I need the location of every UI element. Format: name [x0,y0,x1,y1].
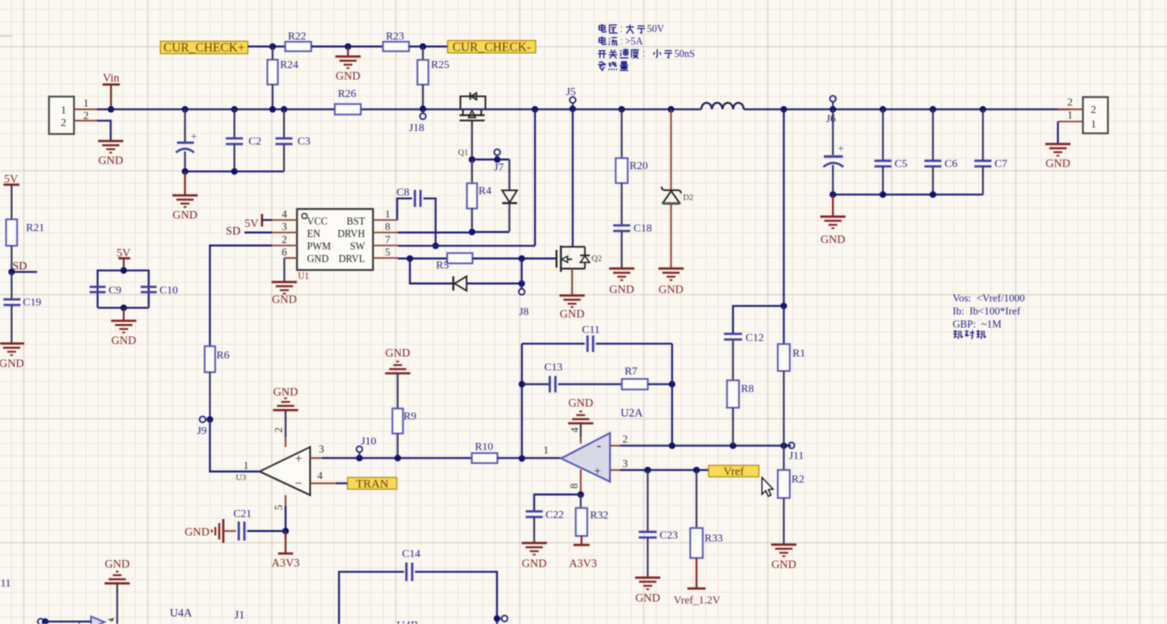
wire C9/C10 top rail [98,270,149,307]
connector P2 (output) [1083,97,1108,133]
ground GND under D2 [658,269,683,297]
pin 2 of P1 [74,110,98,122]
svg-text:8: 8 [385,222,390,233]
capacitor C23 [639,470,679,577]
svg-text:CUR_CHECK-: CUR_CHECK- [452,40,530,54]
svg-text:R24: R24 [280,59,299,71]
pin 6 GND of U1 [282,248,297,259]
wire R10 to U2A output [497,457,561,459]
node U2A supply junction [577,491,584,498]
designator U4B [397,620,419,624]
svg-text:J18: J18 [409,122,425,134]
svg-text:1: 1 [1091,119,1097,131]
testpoint J? at U4A input [38,618,91,624]
capacitor C3 [276,109,311,171]
svg-text:R25: R25 [431,59,450,71]
wire to C22 [534,495,581,512]
resistor R9 [392,409,416,459]
svg-text:3: 3 [319,445,324,456]
svg-text:4: 4 [317,471,323,482]
node C23 tap [644,467,651,474]
testpoint J5 [566,86,576,109]
node C2 tap [231,106,238,113]
pin 4 of U2A (V+) [570,427,581,444]
svg-text:C23: C23 [660,530,679,542]
svg-text:R6: R6 [217,350,230,362]
resistor R26 (in bus) [335,88,361,115]
ground GND under C23 [635,578,660,605]
svg-text:C19: C19 [23,297,42,309]
node R5 right junction [518,255,525,262]
wire U2A pin3 net [620,469,709,471]
svg-text:5: 5 [385,248,390,259]
svg-text:GND: GND [560,309,585,321]
resistor R6 [205,346,230,419]
net label SD (left) [12,260,37,272]
testpoint J6 [826,96,836,125]
capacitor C8 (bootstrap) [397,187,436,246]
svg-text:2: 2 [83,110,89,122]
svg-text:GND: GND [0,358,24,370]
ground GND above U4A (inverted) [105,559,130,624]
svg-text:R1: R1 [793,348,806,360]
capacitor C14 loop [339,548,497,624]
svg-text:2: 2 [1067,97,1073,109]
pin 5 DRVL of U1 [373,248,398,259]
svg-text:GND: GND [111,335,136,347]
testpoint J7 [494,149,504,173]
svg-text:+: + [295,451,302,466]
node SW riser junction [532,106,539,113]
svg-text:R22: R22 [288,31,306,43]
svg-text:GND: GND [568,398,593,410]
svg-text:GND: GND [185,527,210,539]
ground GND under Q2 [560,296,585,321]
pin 3 EN of U1 [272,222,297,233]
svg-text:CUR_CHECK+: CUR_CHECK+ [163,41,244,55]
node cap rail to ground [120,305,127,312]
testpoint at U4B [497,616,508,622]
net label Vref [709,465,759,478]
svg-text:GND: GND [385,348,410,360]
svg-text:5: 5 [274,505,285,510]
zener diode D2 [662,106,694,269]
svg-text:GND: GND [272,294,297,306]
svg-text:SW: SW [350,242,366,253]
pin 2 of P2 [1058,97,1083,110]
node GND tap after R22 [345,43,352,50]
pin 8 DRVH of U1 [373,222,398,233]
capacitor C19 [4,272,42,344]
resistor R8 [727,380,754,445]
node J6 tap [830,106,837,113]
resistor R23 [383,31,409,52]
capacitor C6 [924,109,957,194]
svg-text:J10: J10 [361,436,377,448]
node feedback riser tap [781,106,788,113]
svg-text:GND: GND [820,234,845,246]
net label SD at U1 EN [226,226,272,238]
capacitor C22 [526,509,564,543]
pin 3 of U2A (+) [610,459,628,470]
op-amp/controller U1 body [297,209,373,281]
svg-text:1: 1 [243,461,248,472]
wire feedback right riser [671,344,673,446]
port arrow at U4A input (cut off) [91,617,105,624]
capacitor C4 electrolytic [823,109,844,194]
svg-text:R26: R26 [338,88,357,100]
svg-text:3: 3 [282,222,287,233]
svg-text:2: 2 [61,117,67,129]
svg-text:D2: D2 [683,192,693,202]
svg-text:R2: R2 [792,474,805,486]
op-amp U2A [543,408,643,482]
svg-text:U1: U1 [298,271,309,281]
svg-text:1: 1 [385,210,390,221]
node R24 bottom [269,106,276,113]
transistor Q1 with body diode [458,93,485,158]
svg-text:1: 1 [543,446,548,457]
wire U3 output riser [210,419,260,471]
node R4 bottom junction [469,229,476,236]
ground GND under U1 pin6 [272,258,297,306]
net label TRAN [348,476,397,490]
net label CUR_CHECK+ [160,41,247,55]
svg-text:C7: C7 [995,158,1008,170]
ground GND above U2A (inverted) [568,398,593,438]
svg-text:J6: J6 [826,113,836,125]
svg-text:Vref_1.2V: Vref_1.2V [674,595,721,607]
svg-text:Ib: Ib<100*Iref: Ib: Ib<100*Iref [953,307,1021,318]
node J18 junction [420,106,427,113]
svg-text:7: 7 [385,235,390,246]
pin 1 BST of U1 [373,210,397,221]
ground GND above U3 (inverted) [273,387,298,438]
testpoint J11 [789,442,804,462]
pin 4 VCC of U1 [272,210,297,221]
wire Q2 drain riser [572,109,574,246]
svg-text:U2A: U2A [621,408,644,420]
svg-text:6: 6 [282,248,287,259]
node C1 bottom [182,168,189,175]
wire feedback left riser [521,344,523,459]
resistor R2 [778,446,805,545]
svg-text:R20: R20 [630,160,649,172]
svg-text:J7: J7 [494,162,504,174]
svg-text:1: 1 [61,105,67,117]
wire R23 to CUR_CHECK- [409,46,448,48]
wire SW net [398,245,535,247]
wire output cap ground rail [833,194,983,196]
wire U2A pin2 net [620,445,791,447]
diode D (DRVL speedup) [453,276,521,290]
ground GND lying (left of C21) [185,519,224,543]
capacitor C12 [724,332,764,380]
svg-text:R4: R4 [479,185,492,197]
resistor R5 [436,253,473,271]
svg-text:+: + [594,464,601,478]
svg-text:EN: EN [307,229,320,240]
node at R25 top [420,43,427,50]
svg-text:DRVL: DRVL [339,254,365,265]
svg-text:U4B: U4B [397,620,419,624]
svg-text:C21: C21 [233,508,251,520]
svg-text:4: 4 [282,210,288,221]
node J9 junction [207,416,214,423]
svg-text:C22: C22 [546,509,564,521]
svg-text:Vin: Vin [103,73,120,85]
svg-text:GND: GND [336,71,361,83]
wire P2 pin1 to ground [1057,122,1059,146]
svg-text:1: 1 [1067,110,1073,122]
pin 3 of U3 (+) [310,445,330,459]
wire C12 branch top [733,306,784,334]
diode D (gate speedup, by J7) [502,160,517,232]
svg-text:GND: GND [98,155,123,167]
svg-text:A3V3: A3V3 [569,558,597,570]
wire bus inductor to output [744,108,1070,110]
svg-text:U3: U3 [236,472,246,482]
annotation: voltage/current/switching notes [598,24,695,71]
resistor R32 [576,495,609,546]
node R33 tap [693,467,700,474]
node SD junction [8,269,15,276]
node at R24 top [269,43,276,50]
capacitor C1 electrolytic [176,109,197,171]
ground GND under P2 [1045,144,1070,170]
wire DRVL bypass lower [410,259,453,284]
node feedback right mid [669,381,676,388]
sheet corner artifact [0,35,13,37]
svg-text:C9: C9 [109,285,122,297]
svg-text:GND: GND [307,254,329,265]
svg-text:5V: 5V [244,218,259,230]
capacitor C7 [974,109,1007,194]
svg-text:R11: R11 [0,578,11,590]
node feedback left mid [519,381,526,388]
node J5 junction [569,106,576,113]
wire U3 pin4 to TRAN [336,482,348,484]
node diode/J8 junction [518,280,525,287]
svg-text:50nS: 50nS [674,49,695,60]
pin marker at U4A (gray) [108,618,115,622]
node C5 tap [880,106,887,113]
svg-text:+: + [191,132,197,143]
svg-text:GND: GND [771,559,796,571]
resistor R24 [267,47,298,110]
node 5V cap rail [120,267,127,274]
inductor L1 [701,103,743,110]
node SW/C8 junction [432,243,439,250]
svg-text:GND: GND [635,593,660,605]
ground GND under C1 [172,171,197,221]
svg-text:C18: C18 [634,223,653,235]
node feedback divider top [781,303,788,310]
connector P1 (input) [49,97,74,134]
net label CUR_CHECK- [448,40,536,54]
resistor R20 [616,106,649,225]
svg-text:-: - [597,438,601,453]
wire U3 pin3 net [322,457,472,459]
ground GND under C9/C10 [111,308,136,347]
capacitor C18 [613,223,652,269]
resistor R7 [622,366,672,390]
pin 8 of U2A (V-) [570,470,581,495]
svg-text:2: 2 [274,427,285,432]
svg-text:BST: BST [347,217,365,228]
power port 5V (left rail) [4,174,20,220]
wire J8 riser [521,259,523,289]
svg-text:Vref: Vref [724,466,745,478]
wire output sense riser [783,109,785,344]
ground GND under C18 [609,269,634,297]
svg-text:GND: GND [609,284,634,296]
wire U3 pin5 to A3V3 node [285,506,287,531]
power port A3V3 under R32 [569,545,597,570]
svg-text:J9: J9 [197,425,207,437]
node pin2/C12 junction [730,442,737,449]
power port A3V3 under U3 [272,531,300,570]
svg-text:GND: GND [659,284,684,296]
ground GND between R22 and R23 [335,47,360,83]
node U3 bias junction [282,528,289,535]
power port Vin [103,73,120,110]
svg-text:R9: R9 [404,411,417,423]
node C3 tap [281,106,288,113]
wire Q1 gate down to R4 [471,125,473,160]
wire DRVL to R5 [398,258,447,260]
transistor Q2 [557,246,602,272]
node C4 bottom [830,191,837,198]
ground GND under P1 [98,141,123,167]
resistor R33 [690,470,723,588]
wire SW riser [534,109,536,246]
wire input cap ground rail [185,170,284,172]
wire Q2 source to ground [571,269,573,296]
svg-text:C8: C8 [397,187,410,199]
svg-text:U4A: U4A [170,608,193,620]
testpoint J8 [519,289,530,318]
resistor R4 [467,160,492,232]
wire R22 to R23 [311,46,383,48]
ground GND above R9 (inverted) [385,348,410,409]
node J7 junction [494,156,501,163]
svg-text:R8: R8 [741,383,754,395]
svg-text:−: − [295,476,302,491]
svg-text:J11: J11 [789,450,804,462]
node C2 bottom [231,168,238,175]
pin 4 of U3 (-) [310,471,336,483]
resistor R1 [778,344,806,446]
node pin2/feedback junction [669,442,676,449]
node Vin junction [108,106,115,113]
pin 1 of P2 [1058,110,1083,122]
svg-text:C12: C12 [746,332,764,344]
node R9 bottom junction [394,455,401,462]
capacitor C10 [141,285,179,297]
svg-text:50V: 50V [647,24,665,35]
designator U4A [170,608,193,620]
resistor R22 [285,31,311,52]
capacitor C21 [225,508,286,541]
pin 2 of U2A (-) [610,435,628,446]
svg-text:4: 4 [570,427,581,433]
svg-text:J8: J8 [519,306,529,318]
svg-text:C2: C2 [249,136,262,148]
svg-text:3: 3 [623,459,628,470]
svg-text:8: 8 [570,483,581,488]
wire gate node to J7 [472,159,509,161]
svg-text:DRVH: DRVH [337,229,365,240]
svg-text:>5A: >5A [625,37,644,48]
svg-text:1: 1 [83,98,89,110]
svg-text:R21: R21 [26,222,44,234]
ground GND under C22 [522,543,547,570]
svg-text:C11: C11 [582,324,600,336]
capacitor C11 [522,324,672,352]
resistor R21 [6,219,44,272]
power port 5V above C9/C10 [116,248,131,271]
annotation: op-amp requirements [953,294,1025,339]
svg-text:2: 2 [623,435,628,446]
pin 2 of U3 (V+) [274,427,286,447]
wire CUR_CHECK+ to R22 [248,46,285,48]
designator J1 [234,610,244,622]
node DRVL split [407,255,414,262]
svg-text:Q2: Q2 [592,253,602,263]
svg-text:C13: C13 [544,362,563,374]
testpoint J18 [409,109,426,134]
svg-text:C14: C14 [402,548,421,560]
svg-text:R23: R23 [386,31,405,43]
wire R5 to Q2 gate [473,258,557,260]
wire main input bus [111,108,701,110]
capacitor C13 [522,362,622,393]
svg-text:VCC: VCC [307,217,328,228]
svg-text:C5: C5 [895,158,908,170]
node C7 tap [980,106,987,113]
svg-text:R33: R33 [705,533,724,545]
resistor R25 [417,47,449,110]
node J11 junction [781,442,788,449]
power port 5V at U1 VCC [244,214,272,230]
pin 2 PWM of U1 [272,235,297,246]
wire PWM to R6 [210,246,272,347]
svg-text:J5: J5 [566,86,576,98]
wire DRVH net [398,231,509,234]
resistor R10 [472,441,498,463]
node J10 junction [356,455,363,462]
svg-text:GND: GND [105,559,130,571]
op-amp U3 [236,447,310,495]
svg-text:C6: C6 [945,158,958,170]
node C6 tap [930,106,937,113]
wire P1 pin2 down to ground [97,121,111,142]
power port Vref_1.2V [674,589,721,607]
svg-text:GBP: ~1M: GBP: ~1M [953,320,1003,331]
svg-text:+: + [838,144,844,155]
ground GND under C4 [820,195,845,246]
wire P1 pin1 to Vin node [97,108,111,110]
svg-text:GND: GND [273,387,298,399]
svg-text:TRAN: TRAN [356,476,389,490]
svg-text:2: 2 [282,235,287,246]
svg-text:2: 2 [1091,104,1097,116]
svg-text:J1: J1 [234,610,244,622]
svg-text:GND: GND [1045,158,1070,170]
capacitor C5 [874,109,907,194]
pin 7 SW of U1 [373,235,398,246]
